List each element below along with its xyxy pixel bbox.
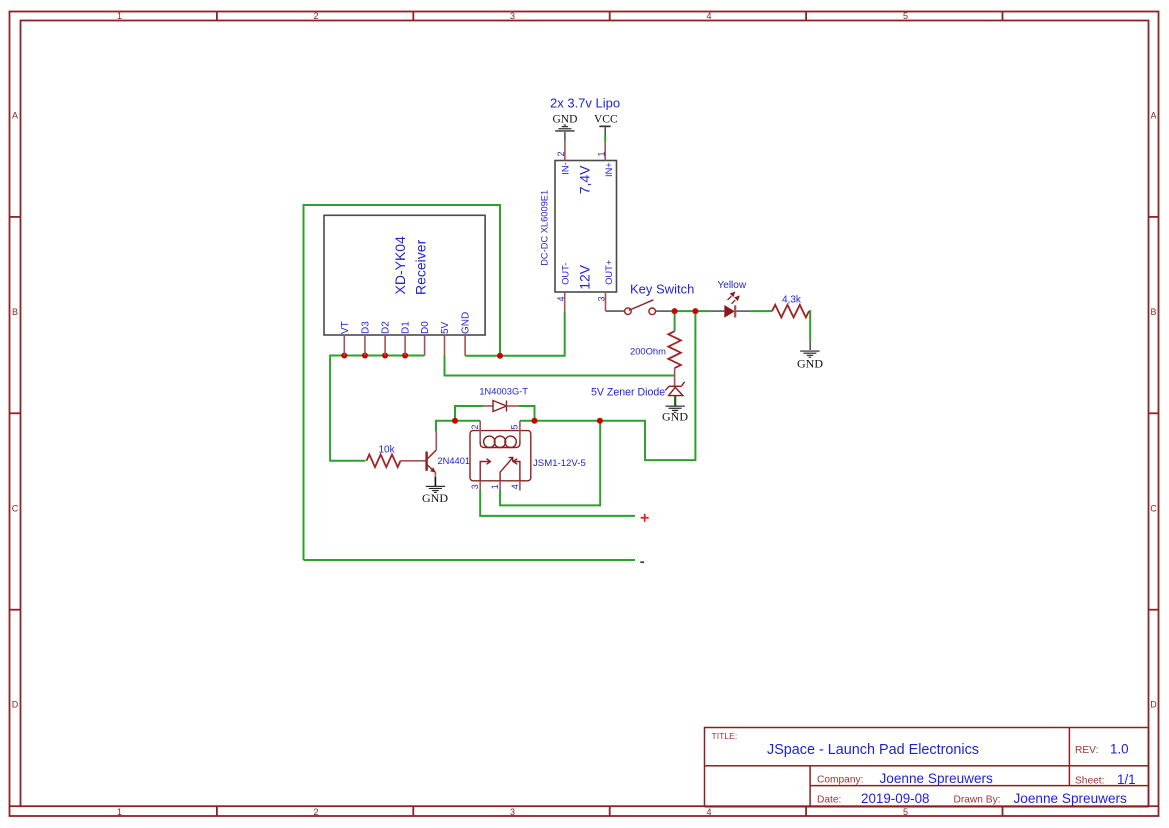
svg-text:D3: D3 <box>360 321 371 334</box>
svg-text:A: A <box>1150 111 1156 121</box>
svg-text:Yellow: Yellow <box>718 280 747 291</box>
svg-text:2: 2 <box>556 151 566 156</box>
svg-text:IN-: IN- <box>560 162 570 174</box>
svg-text:4,3k: 4,3k <box>782 295 802 306</box>
svg-text:B: B <box>1150 307 1156 317</box>
svg-text:Date:: Date: <box>817 795 841 806</box>
svg-text:2: 2 <box>313 807 318 817</box>
svg-text:3: 3 <box>510 807 515 817</box>
svg-text:C: C <box>12 503 19 513</box>
svg-text:JSM1-12V-5: JSM1-12V-5 <box>533 458 586 469</box>
svg-text:5: 5 <box>903 807 908 817</box>
svg-text:REV:: REV: <box>1075 745 1098 756</box>
svg-text:GND: GND <box>797 357 823 371</box>
svg-text:Joenne Spreuwers: Joenne Spreuwers <box>1014 791 1128 806</box>
svg-text:5: 5 <box>510 424 520 429</box>
svg-text:1: 1 <box>117 807 122 817</box>
svg-text:VCC: VCC <box>594 114 618 126</box>
svg-text:IN+: IN+ <box>604 162 614 177</box>
svg-text:3: 3 <box>597 296 607 301</box>
svg-text:1/1: 1/1 <box>1117 772 1136 787</box>
svg-text:4: 4 <box>510 484 520 489</box>
svg-text:1: 1 <box>596 151 606 156</box>
svg-text:2019-09-08: 2019-09-08 <box>861 791 930 806</box>
svg-text:GND: GND <box>662 410 688 424</box>
svg-text:D: D <box>12 700 19 710</box>
svg-text:GND: GND <box>422 491 448 505</box>
svg-text:D1: D1 <box>401 321 412 334</box>
svg-text:1.0: 1.0 <box>1110 742 1129 757</box>
svg-text:B: B <box>12 307 18 317</box>
svg-text:GND: GND <box>461 312 472 334</box>
svg-text:Receiver: Receiver <box>413 239 429 295</box>
svg-text:TITLE:: TITLE: <box>712 731 738 741</box>
svg-text:Drawn By:: Drawn By: <box>954 795 1001 806</box>
svg-text:2: 2 <box>313 11 318 21</box>
svg-text:2N4401: 2N4401 <box>438 456 471 466</box>
svg-text:2x 3.7v Lipo: 2x 3.7v Lipo <box>550 96 620 111</box>
svg-text:1N4003G-T: 1N4003G-T <box>479 386 528 396</box>
svg-text:Company:: Company: <box>817 775 863 786</box>
svg-text:Key Switch: Key Switch <box>630 282 694 297</box>
svg-text:Sheet:: Sheet: <box>1075 776 1104 787</box>
svg-text:12V: 12V <box>577 264 593 290</box>
svg-text:3: 3 <box>470 484 480 489</box>
svg-text:5: 5 <box>903 11 908 21</box>
svg-text:OUT+: OUT+ <box>604 260 614 285</box>
svg-text:200Ohm: 200Ohm <box>630 345 666 356</box>
svg-text:D2: D2 <box>381 321 392 334</box>
svg-text:D0: D0 <box>420 321 431 334</box>
svg-text:5V Zener Diode: 5V Zener Diode <box>591 386 665 398</box>
svg-text:4: 4 <box>556 296 566 301</box>
svg-text:1: 1 <box>117 11 122 21</box>
svg-text:C: C <box>1150 503 1157 513</box>
svg-text:JSpace - Launch Pad Electronic: JSpace - Launch Pad Electronics <box>767 742 979 758</box>
svg-text:A: A <box>12 111 18 121</box>
svg-text:2: 2 <box>470 424 480 429</box>
svg-text:3: 3 <box>510 11 515 21</box>
svg-text:7,4V: 7,4V <box>577 165 593 194</box>
svg-text:Joenne Spreuwers: Joenne Spreuwers <box>880 771 994 786</box>
svg-text:GND: GND <box>553 114 578 126</box>
svg-text:1: 1 <box>490 484 500 489</box>
svg-text:DC-DC XL6009E1: DC-DC XL6009E1 <box>540 190 550 266</box>
svg-text:VT: VT <box>340 321 351 334</box>
svg-text:4: 4 <box>706 807 711 817</box>
svg-text:D: D <box>1150 700 1157 710</box>
svg-text:5V: 5V <box>440 321 451 334</box>
svg-text:OUT-: OUT- <box>560 263 570 285</box>
svg-text:4: 4 <box>706 11 711 21</box>
svg-text:XD-YK04: XD-YK04 <box>392 236 408 295</box>
